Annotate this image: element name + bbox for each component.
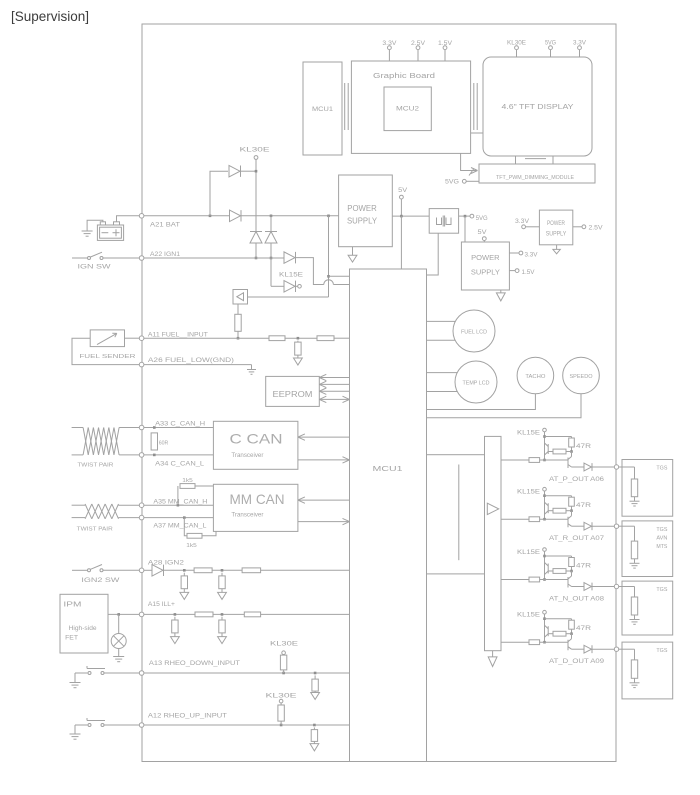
gauge TEMP LCD xyxy=(455,361,497,403)
wire MCU1 to FUEL LCD xyxy=(427,321,456,340)
resistor R8 series IGN2 xyxy=(242,568,261,573)
power 2.5V output PS3 xyxy=(573,225,603,232)
wire A13 net xyxy=(144,672,350,675)
switch IGN2 SW xyxy=(72,565,139,584)
wire R1 to A11 line xyxy=(237,331,240,339)
wire base drive row3 xyxy=(501,577,568,582)
ground A11 divider xyxy=(294,355,303,365)
wire IPM to A15 port xyxy=(108,613,139,616)
power 3.3V (graphic board) xyxy=(382,41,396,61)
wire SPEEDO to MCU1 xyxy=(427,394,582,418)
box C CAN Transceiver U5 xyxy=(213,421,298,469)
ground SW3 earth xyxy=(70,683,81,688)
wire A21 tap to supervisor xyxy=(327,216,349,297)
resistor 47R row3 xyxy=(569,556,592,572)
wire battery positive to A21 port xyxy=(117,216,140,222)
power 2.5V (graphic board) xyxy=(411,41,425,61)
wire output row1 xyxy=(572,466,615,468)
wire fuel sender to A11 port xyxy=(125,337,140,339)
power 5V node xyxy=(398,188,407,216)
diode D1 to KL30E rail xyxy=(229,165,256,176)
battery B1 xyxy=(97,222,123,241)
box EEPROM U4 xyxy=(266,376,320,406)
wire 5VG to PS2 xyxy=(464,216,466,242)
resistor R11 ILL divider2 xyxy=(219,617,225,633)
svg-text:A13 RHEO_DOWN_INPUT: A13 RHEO_DOWN_INPUT xyxy=(149,661,240,667)
port A28 IGN2 xyxy=(139,561,184,573)
port A35 MM_CAN_H xyxy=(139,499,207,507)
ground battery earth xyxy=(82,231,93,236)
wire D3 cathode to A22 xyxy=(255,243,258,259)
ground driver array xyxy=(488,651,497,667)
svg-text:C CAN: C CAN xyxy=(230,431,283,447)
ground TGS 1 xyxy=(630,497,640,506)
svg-text:SUPPLY: SUPPLY xyxy=(347,217,378,226)
box TFT_PWM_DIMMING_MODULE xyxy=(479,164,595,183)
svg-text:A34 C_CAN_L: A34 C_CAN_L xyxy=(155,462,205,468)
box POWER SUPPLY PS1 xyxy=(339,175,393,247)
label AT_N_OUT A08 xyxy=(549,597,605,603)
transistor Q4 npn row2 xyxy=(568,511,572,528)
svg-text:5VG: 5VG xyxy=(445,180,459,186)
box MCU1 (graphic board side) xyxy=(303,62,342,155)
resistor R10 series ILL xyxy=(195,612,213,617)
power 5VG (TFT) xyxy=(545,40,556,57)
transistor Q5 pnp row3 xyxy=(545,563,572,575)
gauge TACHO xyxy=(517,357,554,394)
svg-text:A35 MM_CAN_H: A35 MM_CAN_H xyxy=(153,499,207,505)
wire supervisor sense leg xyxy=(237,304,239,314)
wire A22 to MCU1 with crossover hop xyxy=(296,258,350,285)
svg-text:A21 BAT: A21 BAT xyxy=(150,223,180,229)
box IPM high-side FET xyxy=(60,594,108,653)
port A22 IGN1 xyxy=(139,252,180,260)
wire filter output to MCU1 xyxy=(427,233,439,275)
switch SW3 rheo down xyxy=(75,666,139,675)
filter FL1 EMI xyxy=(429,209,458,234)
ground IGN2 divider1 xyxy=(180,589,189,600)
box Graphic Board xyxy=(351,61,470,153)
svg-text:KL15E: KL15E xyxy=(517,613,540,619)
svg-text:KL30E: KL30E xyxy=(270,641,298,647)
diode D4 clamp A21-IGN1 xyxy=(265,232,277,244)
ground ILL divider1 xyxy=(171,633,180,644)
ground TGS 3 xyxy=(630,615,640,624)
wire A21 to clamp D4 xyxy=(270,216,272,232)
svg-text:A15 ILL+: A15 ILL+ xyxy=(148,602,176,608)
wire 5V to MCU1 top xyxy=(400,216,402,269)
wire EEPROM bus line4 bidirectional xyxy=(319,396,349,402)
svg-text:A12 RHEO_UP_INPUT: A12 RHEO_UP_INPUT xyxy=(148,714,227,720)
resistor R16 A12 pulldown xyxy=(311,727,317,741)
resistor R4 A11 pulldown xyxy=(295,341,301,356)
svg-text:TFT_PWM_DIMMING_MODULE: TFT_PWM_DIMMING_MODULE xyxy=(496,175,574,181)
wire SW4 to ground xyxy=(74,725,76,734)
port A26 FUEL_LOW xyxy=(139,358,234,367)
svg-text:TGS: TGS xyxy=(656,527,667,533)
svg-text:POWER: POWER xyxy=(471,253,500,262)
wire C CAN TX from MCU1 xyxy=(298,457,350,463)
power KL15E row3 xyxy=(517,548,546,556)
diode D10 output row3 xyxy=(584,583,592,591)
resistor load TGS 4 xyxy=(631,660,637,678)
power 1.5V output PS2 xyxy=(509,269,534,277)
box MM CAN Transceiver U6 xyxy=(213,484,298,531)
svg-text:KL15E: KL15E xyxy=(279,273,303,279)
box 4.6 inch TFT DISPLAY xyxy=(483,57,592,156)
twisted pair C-CAN xyxy=(72,428,140,469)
svg-text:SPEEDO: SPEEDO xyxy=(570,374,594,380)
resistor 60R CAN termination xyxy=(151,433,169,450)
power KL30E pullup A12 xyxy=(266,693,297,705)
svg-text:SUPPLY: SUPPLY xyxy=(471,267,500,276)
resistor R6 series IGN2 xyxy=(194,568,212,573)
wire KL15E rail row1 xyxy=(543,432,571,462)
wire SW3 to ground xyxy=(74,673,76,683)
ground PS1 xyxy=(348,247,357,262)
power 5VG input dimming module xyxy=(445,179,479,185)
wire A15 net xyxy=(144,613,350,616)
wire base drive row4 xyxy=(501,640,568,645)
wire A12 net xyxy=(144,724,350,727)
resistor 47R row4 xyxy=(569,619,592,635)
wire A26 to ground xyxy=(144,365,252,370)
diode D7 series IGN2 xyxy=(144,565,164,576)
resistor 47R row1 xyxy=(569,437,592,453)
wire KL30E vertical rail xyxy=(255,170,258,232)
resistor load TGS 1 xyxy=(631,479,637,497)
wire into TGS 2 xyxy=(619,526,635,541)
title [Supervision] xyxy=(11,9,89,24)
wire output row3 xyxy=(572,586,615,588)
svg-text:Graphic Board: Graphic Board xyxy=(373,73,435,80)
wire 5V rail xyxy=(392,215,470,218)
svg-text:TWIST PAIR: TWIST PAIR xyxy=(77,462,113,468)
fuel sender FS1 xyxy=(79,330,135,360)
svg-text:MCU2: MCU2 xyxy=(396,106,419,113)
wire PWM drive from graphic board xyxy=(461,153,478,175)
wire fuel sender loop to A26 xyxy=(72,338,139,364)
wire A21 BAT net xyxy=(144,215,339,218)
gauge SPEEDO xyxy=(563,357,600,394)
ground PS3 xyxy=(553,245,560,254)
port A11 FUEL__INPUT xyxy=(139,332,208,340)
switch IGN SW xyxy=(72,252,139,270)
buffer U7 driver array xyxy=(485,436,502,650)
wire output row2 xyxy=(572,525,615,527)
transistor Q2 npn row1 xyxy=(568,452,572,469)
svg-text:KL15E: KL15E xyxy=(517,550,540,556)
svg-text:EEPROM: EEPROM xyxy=(273,390,313,399)
diode D8 output row1 xyxy=(584,463,592,471)
wire supervisor output xyxy=(248,296,329,298)
svg-text:A26 FUEL_LOW(GND): A26 FUEL_LOW(GND) xyxy=(148,358,234,364)
port A21 BAT xyxy=(139,214,180,229)
transistor Q8 npn row4 xyxy=(568,634,572,651)
svg-text:FUEL LCD: FUEL LCD xyxy=(461,329,487,335)
power KL30E (TFT) xyxy=(507,40,526,57)
wire KL15E rail row3 xyxy=(543,551,571,581)
svg-text:5VG: 5VG xyxy=(476,216,488,222)
op-amp U3 voltage supervisor xyxy=(233,290,248,305)
port A37 MM_CAN_L xyxy=(139,515,207,529)
connector TFT to dimming module xyxy=(516,156,554,164)
svg-text:4.6" TFT DISPLAY: 4.6" TFT DISPLAY xyxy=(502,102,574,111)
wire A22 IGN1 net xyxy=(144,257,284,259)
svg-text:AVN: AVN xyxy=(656,536,667,542)
connector MCU1 to driver xyxy=(427,455,485,574)
resistor R9 ILL divider1 xyxy=(172,617,178,633)
wire riser A21 to KL30E diode xyxy=(210,171,228,216)
wire TACHO to MCU1 xyxy=(427,394,536,410)
svg-text:IGN2 SW: IGN2 SW xyxy=(81,577,120,584)
svg-text:TWIST PAIR: TWIST PAIR xyxy=(77,526,113,532)
resistor R3 series A11 xyxy=(317,336,334,341)
port A12 RHEO_UP_INPUT xyxy=(139,714,227,728)
svg-text:1.5V: 1.5V xyxy=(522,270,535,276)
svg-text:2.5V: 2.5V xyxy=(589,226,603,232)
label AT_P_OUT A06 xyxy=(549,477,605,483)
svg-text:47R: 47R xyxy=(576,503,592,509)
box POWER SUPPLY PS2 xyxy=(461,242,509,290)
wire into TGS 3 xyxy=(619,587,635,598)
svg-text:POWER: POWER xyxy=(347,204,377,213)
wire D4 to A22 and KL15E branch xyxy=(270,243,284,286)
wire A35 to transceiver xyxy=(144,504,214,507)
wire A28 net xyxy=(164,569,350,572)
svg-text:MTS: MTS xyxy=(656,544,667,550)
svg-text:Transceiver: Transceiver xyxy=(231,452,264,459)
svg-text:MCU1: MCU1 xyxy=(312,106,333,113)
connector hatch GraphicBoard-TFT xyxy=(471,83,483,133)
board outline border xyxy=(142,24,616,762)
ground A12 divider xyxy=(310,741,319,751)
wire into TGS 4 xyxy=(619,649,635,660)
svg-text:SUPPLY: SUPPLY xyxy=(546,232,567,238)
connector hatch MCU1-GraphicBoard xyxy=(345,83,349,130)
ground PS2 xyxy=(496,290,505,301)
svg-text:AT_N_OUT A08: AT_N_OUT A08 xyxy=(549,597,605,603)
port A15 ILL+ xyxy=(139,602,175,617)
power KL15E row2 xyxy=(517,487,546,495)
diode D3 clamp KL30E-IGN1 xyxy=(250,232,262,244)
label KL15E node xyxy=(279,273,303,279)
svg-text:TGS: TGS xyxy=(656,587,667,593)
svg-text:KL30E: KL30E xyxy=(266,693,297,699)
twisted pair MM-CAN xyxy=(72,504,140,532)
svg-text:3.3V: 3.3V xyxy=(525,253,538,259)
ground lamp earth xyxy=(113,657,124,662)
box MCU2 xyxy=(384,87,431,131)
wire KL15E rail row4 xyxy=(543,614,571,644)
wire EEPROM bus line2 xyxy=(319,381,349,387)
power 5VG node xyxy=(470,214,488,222)
svg-text:A37 MM_CAN_L: A37 MM_CAN_L xyxy=(153,523,207,529)
ground TGS 4 xyxy=(630,678,640,687)
wire A34 to transceiver xyxy=(144,454,214,457)
svg-text:IPM: IPM xyxy=(63,602,81,609)
resistor R1 sense divider xyxy=(235,314,241,331)
resistor 1k5 MM-CAN low xyxy=(184,518,216,550)
wire base drive row2 xyxy=(501,517,568,522)
svg-text:AT_R_OUT A07: AT_R_OUT A07 xyxy=(549,536,605,542)
resistor R13 pullup A13 xyxy=(280,655,286,673)
svg-text:KL30E: KL30E xyxy=(240,148,270,154)
svg-text:1k5: 1k5 xyxy=(186,543,197,549)
svg-text:3.3V: 3.3V xyxy=(515,219,529,225)
node output port row3 xyxy=(614,584,618,588)
svg-text:60R: 60R xyxy=(159,440,169,446)
wire C CAN RX to MCU1 xyxy=(298,434,350,440)
port A13 RHEO_DOWN_INPUT xyxy=(139,661,240,675)
svg-text:[Supervision]: [Supervision] xyxy=(11,9,89,24)
wire EEPROM bus line3 xyxy=(319,388,349,394)
box TGS load 4 xyxy=(622,642,673,699)
label AT_R_OUT A07 xyxy=(549,536,605,542)
ground SW4 earth xyxy=(70,734,81,739)
wire base drive row1 xyxy=(501,458,568,463)
svg-text:47R: 47R xyxy=(576,563,592,569)
svg-text:FUEL SENDER: FUEL SENDER xyxy=(79,354,135,360)
svg-text:47R: 47R xyxy=(576,444,592,450)
resistor 47R row2 xyxy=(569,496,592,512)
power KL30E (top) xyxy=(240,148,270,172)
diode D5 series A22 xyxy=(284,252,296,263)
wire output row4 xyxy=(572,648,615,650)
resistor R14 A13 pulldown xyxy=(312,675,318,691)
power KL30E pullup A13 xyxy=(270,641,298,655)
wire A37 to transceiver xyxy=(144,516,214,519)
node output port row1 xyxy=(614,465,618,469)
svg-text:FET: FET xyxy=(65,636,78,642)
power 3.3V (TFT) xyxy=(573,40,586,57)
wire KL15E rail row2 xyxy=(543,491,571,521)
svg-text:KL15E: KL15E xyxy=(517,490,540,496)
resistor R5 IGN2 divider1 xyxy=(181,573,187,589)
box POWER SUPPLY PS3 xyxy=(539,210,572,245)
ground TGS 2 xyxy=(630,559,640,568)
svg-text:1k5: 1k5 xyxy=(182,478,193,484)
resistor 1k5 MM-CAN high xyxy=(178,478,214,505)
svg-text:High-side: High-side xyxy=(69,626,98,632)
box TGS load 3 xyxy=(622,581,673,635)
port A34 C_CAN_L xyxy=(139,453,205,468)
svg-text:5V: 5V xyxy=(398,188,407,194)
svg-text:TGS: TGS xyxy=(656,648,667,654)
wire MM CAN RX to MCU1 xyxy=(298,497,350,503)
transistor Q3 pnp row2 xyxy=(545,502,572,514)
power 5V input PS2 xyxy=(478,230,487,242)
lamp LP1 illumination xyxy=(111,614,126,656)
svg-text:MCU1: MCU1 xyxy=(373,464,403,473)
wire A11 net xyxy=(144,337,350,340)
svg-text:TACHO: TACHO xyxy=(525,374,546,380)
svg-text:AT_P_OUT A06: AT_P_OUT A06 xyxy=(549,477,605,483)
diode D2 series A21 xyxy=(230,210,242,221)
power 3.3V output PS2 xyxy=(509,251,537,259)
node output port row2 xyxy=(614,524,618,528)
wire MCU1 to TEMP LCD xyxy=(427,373,458,392)
resistor R15 pullup A12 xyxy=(278,705,284,725)
resistor R7 IGN2 divider2 xyxy=(219,573,225,589)
node output port row4 xyxy=(614,647,618,651)
transistor Q6 npn row3 xyxy=(568,571,572,588)
label AT_D_OUT A09 xyxy=(549,659,605,665)
svg-text:TEMP LCD: TEMP LCD xyxy=(463,380,490,386)
power KL15E row4 xyxy=(517,610,546,618)
power 1.5V (graphic board) xyxy=(438,41,452,61)
wire A33 to transceiver xyxy=(144,426,214,429)
ground ILL divider2 xyxy=(218,633,227,644)
wire EEPROM bus line1 xyxy=(319,374,349,380)
svg-text:47R: 47R xyxy=(576,626,592,632)
wire battery negative to ground xyxy=(87,220,103,231)
diode D9 output row2 xyxy=(584,522,592,530)
svg-text:MM CAN: MM CAN xyxy=(230,491,285,507)
box TGS load 2 xyxy=(622,521,673,577)
svg-text:A22 IGN1: A22 IGN1 xyxy=(150,252,181,258)
svg-text:KL15E: KL15E xyxy=(517,430,540,436)
transistor Q7 pnp row4 xyxy=(545,625,572,637)
resistor load TGS 3 xyxy=(631,597,637,615)
resistor R12 series ILL xyxy=(244,612,260,617)
port A33 C_CAN_H xyxy=(139,422,205,430)
svg-text:POWER: POWER xyxy=(547,221,566,227)
ground A13 divider xyxy=(311,691,320,699)
gauge FUEL LCD xyxy=(453,310,495,352)
wire into TGS 1 xyxy=(619,467,635,479)
resistor R2 series A11 xyxy=(269,336,285,341)
diode D6 KL15E output xyxy=(284,281,301,292)
svg-text:AT_D_OUT A09: AT_D_OUT A09 xyxy=(549,659,605,665)
svg-text:5V: 5V xyxy=(478,230,487,236)
svg-text:A11 FUEL__INPUT: A11 FUEL__INPUT xyxy=(148,332,208,338)
ground IGN2 divider2 xyxy=(218,589,227,600)
diode D11 output row4 xyxy=(584,645,592,653)
svg-text:TGS: TGS xyxy=(656,466,667,472)
switch SW4 rheo up xyxy=(75,718,139,727)
svg-text:Transceiver: Transceiver xyxy=(231,511,264,518)
box MCU1 main microcontroller xyxy=(350,269,427,762)
wire MM CAN TX from MCU1 xyxy=(298,518,350,524)
power 3.3V input PS3 xyxy=(515,219,539,229)
power KL15E row1 xyxy=(517,428,546,436)
svg-text:A33 C_CAN_H: A33 C_CAN_H xyxy=(155,422,205,428)
resistor load TGS 2 xyxy=(631,541,637,559)
box TGS load 1 xyxy=(622,460,673,517)
ground A26 earth xyxy=(247,370,256,375)
svg-text:IGN SW: IGN SW xyxy=(78,263,112,270)
transistor Q1 pnp row1 xyxy=(545,443,572,455)
